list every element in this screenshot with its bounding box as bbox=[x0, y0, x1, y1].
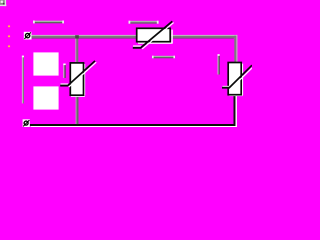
corner handle icon (top-left of canvas) bbox=[0, 0, 6, 6]
wire stub H2 (top middle horizontal) bbox=[129, 21, 159, 24]
component box B1 (upper white box) bbox=[33, 52, 58, 75]
wire stub H3 (middle horizontal) bbox=[152, 56, 175, 59]
varistor RV2 (vertical, left middle) bbox=[60, 61, 96, 97]
terminal T1 (input node, top left) bbox=[24, 32, 32, 40]
pin dot B (left margin) bbox=[8, 35, 10, 37]
wire: right vertical drop to RV3 bbox=[234, 35, 237, 63]
wire stub V5 (small vertical, right area) bbox=[218, 54, 220, 74]
varistor RV1 (horizontal, top middle) bbox=[133, 21, 174, 49]
wire: bottom rail (black with white shadow) bbox=[30, 124, 237, 127]
junction node (top rail / RV2 branch) bbox=[75, 35, 79, 38]
wire: RV3 bottom lead (black, to bottom-right corner) bbox=[234, 95, 237, 127]
wire: branch down to RV2 (top lead) bbox=[75, 38, 78, 63]
varistor RV3 (vertical, right) bbox=[222, 63, 252, 97]
pin dot C (left margin) bbox=[8, 45, 10, 47]
wire: top rail right segment (RV1 to right corner) bbox=[170, 35, 236, 39]
wire: top rail left segment (terminal T1 to RV1) bbox=[31, 35, 136, 39]
wire stub V4 (small vertical, right of K1) bbox=[63, 64, 65, 79]
component box B2 (lower white box) bbox=[33, 86, 58, 109]
wire: RV2 bottom lead to bottom rail bbox=[76, 96, 79, 125]
wire stub (left vertical bus segment) bbox=[22, 56, 24, 104]
schematic background bbox=[0, 0, 252, 127]
wire stub H1 (top left horizontal) bbox=[33, 21, 64, 24]
pin dot A (left margin) bbox=[8, 25, 10, 27]
terminal T2 (input node, bottom left) bbox=[23, 119, 30, 127]
